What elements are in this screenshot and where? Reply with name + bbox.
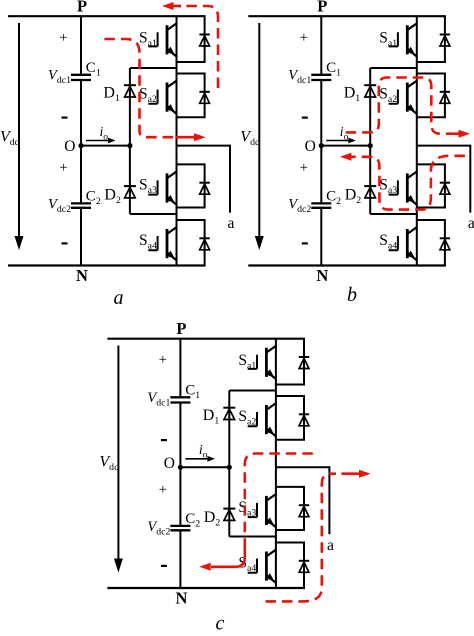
wire cell bottom stub Sa2 (a) [177, 116, 206, 118]
wire cell top stub Sa3 (a) [177, 163, 206, 165]
wire cell bottom stub Sa3 (c) [276, 529, 305, 531]
wire cell bottom stub Sa3 (b) [417, 207, 446, 209]
svg-text:N: N [175, 589, 187, 608]
node O dot (c) [178, 465, 183, 470]
IGBT Sa3 (a) [148, 171, 177, 205]
red commutation path O-D1-Sa2 (a) [104, 39, 178, 137]
diode Da3 (a) [199, 183, 209, 195]
wire D1 link to leg (c) [229, 390, 276, 392]
wire O to clamp junction (b) [321, 145, 370, 147]
diode Da1 (a) [199, 35, 209, 47]
IGBT Sa2 (c) [248, 403, 277, 437]
wire D2 link to leg (c) [229, 536, 276, 538]
diode Da1 (c) [299, 357, 309, 369]
node O dot (b) [319, 143, 324, 148]
svg-text:b: b [347, 284, 357, 306]
label - lower (b) [302, 242, 308, 244]
IGBT Sa1 (a) [148, 23, 177, 57]
wire diode column Sa2 (c) [303, 396, 305, 440]
clamp diode D2 (c) [223, 509, 235, 521]
wire O to clamp junction (a) [81, 145, 130, 147]
svg-text:+: + [300, 30, 308, 46]
wire P rail (a) [8, 15, 206, 17]
IGBT Sa1 (c) [248, 346, 277, 380]
IGBT Sa2 (b) [389, 80, 418, 114]
svg-text:P: P [317, 0, 327, 16]
svg-text:O: O [305, 138, 316, 155]
svg-text:a: a [327, 537, 334, 554]
wire D1 link to leg (a) [130, 67, 177, 69]
io arrow (b) [326, 140, 349, 142]
Vdc arrow (b) [258, 23, 260, 236]
svg-text:O: O [64, 138, 75, 155]
wire cell top stub Sa4 (b) [417, 219, 446, 221]
IGBT Sa2 (a) [148, 80, 177, 114]
wire capacitor branch (c) [179, 339, 181, 588]
IGBT Sa4 (b) [389, 227, 418, 261]
svg-text:+: + [59, 160, 67, 176]
wire switch leg (b) [416, 16, 418, 265]
wire diode column Sa3 (a) [204, 164, 206, 207]
wire cell bottom stub Sa2 (c) [276, 439, 305, 441]
wire cell bottom stub Sa1 (c) [276, 384, 305, 386]
capacitor C2 (c) [170, 526, 190, 530]
diode Da3 (c) [299, 505, 309, 517]
node clamp junction dot (c) [227, 465, 232, 470]
diode Da2 (c) [299, 414, 309, 426]
diode Da4 (c) [299, 561, 309, 573]
wire P rail (b) [248, 15, 446, 17]
wire diode column Sa4 (c) [303, 543, 305, 589]
wire clamp diode branch (c) [228, 391, 230, 537]
Vdc arrow (a) [18, 23, 20, 236]
wire diode column Sa3 (b) [444, 164, 446, 207]
clamp diode D1 (b) [364, 85, 376, 97]
wire diode column Sa4 (b) [444, 220, 446, 266]
wire output a (a) [177, 146, 231, 213]
node clamp junction dot (a) [127, 143, 132, 148]
svg-text:P: P [77, 0, 87, 16]
Vdc arrow (c) [117, 346, 119, 559]
IGBT Sa4 (a) [148, 227, 177, 261]
wire O to clamp junction (c) [180, 466, 229, 468]
label - upper (b) [302, 116, 308, 118]
wire switch leg (c) [275, 339, 277, 588]
node clamp junction dot (b) [368, 143, 373, 148]
wire cell top stub Sa2 (c) [276, 395, 305, 397]
wire diode column Sa1 (c) [303, 339, 305, 385]
wire capacitor branch (a) [80, 16, 82, 265]
capacitor C1 (c) [170, 397, 190, 402]
diode Da3 (b) [440, 183, 450, 195]
svg-text:P: P [176, 319, 186, 338]
wire cell top stub Sa2 (b) [417, 73, 446, 75]
wire D1 link to leg (b) [370, 67, 417, 69]
node O dot (a) [78, 143, 83, 148]
red arrow exit to a (c) [341, 472, 361, 475]
svg-text:O: O [164, 455, 175, 472]
clamp diode D2 (a) [124, 186, 136, 198]
wire switch leg (a) [176, 16, 178, 265]
wire P rail (c) [107, 338, 305, 340]
capacitor C1 (a) [71, 75, 91, 80]
capacitor C2 (a) [71, 203, 91, 207]
diode Da1 (b) [440, 35, 450, 47]
svg-text:N: N [76, 266, 88, 285]
clamp diode D2 (b) [364, 186, 376, 198]
wire N rail (b) [248, 264, 446, 266]
label - lower (a) [62, 242, 68, 244]
svg-text:N: N [316, 266, 328, 285]
io arrow (a) [86, 140, 109, 142]
red arrow exit to a (b) [446, 132, 461, 135]
capacitor C2 (b) [311, 203, 331, 207]
wire cell bottom stub Sa1 (b) [417, 61, 446, 63]
IGBT Sa1 (b) [389, 23, 418, 57]
red path a-D2-O loop (b) [353, 156, 465, 210]
red arrow toward P (a) [172, 5, 182, 8]
wire capacitor branch (b) [320, 16, 322, 265]
wire cell top stub Sa4 (a) [177, 219, 206, 221]
wire clamp diode branch (b) [369, 68, 371, 214]
wire diode column Sa4 (a) [204, 220, 206, 266]
IGBT Sa4 (c) [248, 549, 277, 583]
label - upper (a) [62, 116, 68, 118]
wire D2 link to leg (b) [370, 213, 417, 215]
wire cell bottom stub Sa3 (a) [177, 207, 206, 209]
wire diode column Sa2 (a) [204, 74, 206, 118]
clamp diode D1 (c) [223, 408, 235, 420]
diode Da4 (b) [440, 238, 450, 250]
io arrow (c) [185, 458, 208, 460]
wire D2 link to leg (a) [130, 213, 177, 215]
wire cell top stub Sa3 (c) [276, 486, 305, 488]
wire cell top stub Sa3 (b) [417, 163, 446, 165]
capacitor C1 (b) [311, 75, 331, 80]
red path O-Sa3-Sa4 (c) [245, 454, 313, 544]
IGBT Sa3 (b) [389, 171, 418, 205]
svg-text:a: a [468, 215, 474, 232]
svg-text:a: a [228, 215, 235, 232]
svg-text:c: c [216, 613, 225, 632]
IGBT Sa3 (c) [248, 494, 277, 528]
clamp diode D1 (a) [124, 85, 136, 97]
red freewheel path a-diodes-P (a) [179, 6, 219, 88]
diode Da2 (b) [440, 92, 450, 104]
red arrow into Sa4 (c) [211, 541, 245, 567]
wire clamp diode branch (a) [129, 68, 131, 214]
wire diode column Sa2 (b) [444, 74, 446, 118]
wire cell bottom stub Sa1 (a) [177, 61, 206, 63]
svg-text:+: + [159, 482, 167, 498]
svg-text:+: + [159, 352, 167, 368]
wire output a (c) [276, 467, 330, 534]
wire cell top stub Sa4 (c) [276, 542, 305, 544]
svg-text:+: + [59, 30, 67, 46]
label - upper (c) [161, 439, 167, 441]
wire cell top stub Sa2 (a) [177, 73, 206, 75]
wire diode column Sa3 (c) [303, 487, 305, 530]
red arrow to output a (a) [176, 136, 196, 139]
red path O-D1-Sa2 loop (b) [346, 78, 444, 134]
wire N rail (a) [8, 264, 206, 266]
wire N rail (c) [107, 587, 305, 589]
wire diode column Sa1 (a) [204, 16, 206, 62]
wire diode column Sa1 (b) [444, 16, 446, 62]
wire cell bottom stub Sa2 (b) [417, 116, 446, 118]
diode Da2 (a) [199, 92, 209, 104]
svg-text:+: + [300, 160, 308, 176]
red freewheel path N-diodes-a (c) [266, 474, 337, 602]
diode Da4 (a) [199, 238, 209, 250]
wire output a (b) [417, 146, 471, 213]
svg-text:a: a [114, 287, 124, 309]
red arrow toward O (b) [349, 156, 353, 159]
label - lower (c) [161, 565, 167, 567]
